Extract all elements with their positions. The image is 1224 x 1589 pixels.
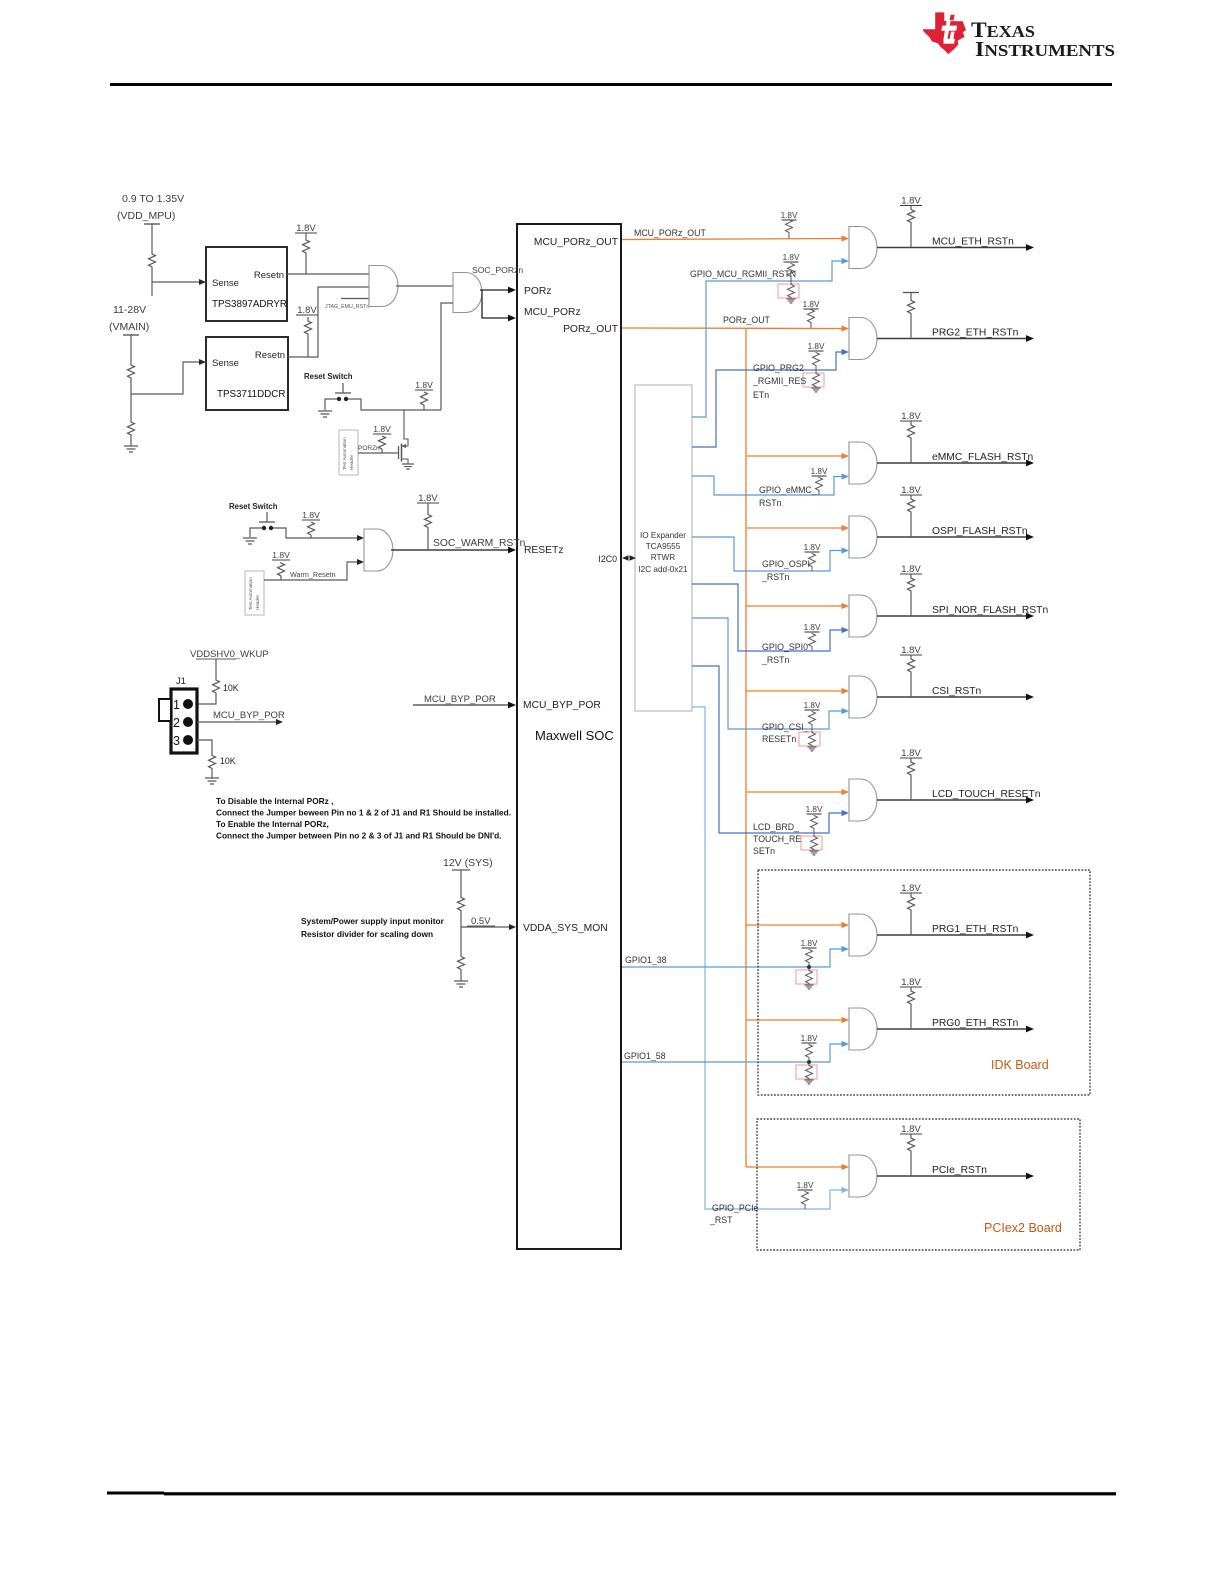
svg-text:VDDA_SYS_MON: VDDA_SYS_MON — [523, 923, 608, 934]
svg-text:TCA9555: TCA9555 — [646, 542, 681, 551]
header rule — [110, 83, 1112, 86]
wire PRG1_ETH_RSTn output — [877, 934, 1026, 936]
resistor R input U15 — [809, 711, 816, 725]
wire PORz_OUT (orange) to PRG2 gate — [622, 327, 843, 330]
svg-text:RTWR: RTWR — [651, 553, 675, 562]
resistor R pullup MCU_ETH_RSTn — [908, 207, 915, 226]
resistor DNI pulldown U11 — [803, 373, 824, 387]
wire LCD_TOUCH_RESETn output — [877, 799, 1026, 801]
svg-text:SPI_NOR_FLASH_RSTn: SPI_NOR_FLASH_RSTn — [932, 605, 1048, 616]
wire eMMC_FLASH_RSTn output — [877, 462, 1026, 464]
resistor R input U11 — [813, 352, 820, 366]
ground DNI U10 — [786, 299, 795, 303]
svg-text:MCU_PORz_OUT: MCU_PORz_OUT — [634, 228, 706, 238]
wire GPIO_MCU_RGMII_RSTN (blue) — [692, 261, 843, 417]
svg-text:CSI_RSTn: CSI_RSTn — [932, 686, 981, 697]
svg-text:MCU_BYP_POR: MCU_BYP_POR — [523, 700, 601, 711]
and-gate U19 (PCIe_RSTn) — [849, 1155, 877, 1197]
wire GPIO_OSPI_RSTn (blue) — [692, 537, 843, 571]
wire — [130, 437, 132, 446]
svg-text:PORz_OUT: PORz_OUT — [723, 315, 771, 325]
svg-text:PCIe_RSTn: PCIe_RSTn — [932, 1165, 987, 1176]
svg-text:Test Automation: Test Automation — [248, 577, 253, 610]
svg-text:TPS3897ADRYR: TPS3897ADRYR — [212, 299, 287, 310]
svg-text:GPIO1_58: GPIO1_58 — [624, 1051, 666, 1061]
svg-text:PORZn: PORZn — [358, 445, 380, 452]
resistor R_PU1 — [303, 239, 310, 254]
svg-text:1.8V: 1.8V — [272, 550, 290, 560]
svg-text:_RGMII_RES: _RGMII_RES — [752, 376, 806, 386]
resistor R_J1 10K — [209, 754, 216, 770]
and-gate U16 (LCD_TOUCH_RESETn) — [849, 779, 877, 821]
wire orange branch to PRG1 gate — [746, 924, 843, 926]
svg-text:1.8V: 1.8V — [418, 493, 438, 504]
svg-text:To Enable the Internal PORz,: To Enable the Internal PORz, — [216, 819, 329, 829]
wire LCD_BRD_TOUCH_RESETn (blue) — [692, 666, 843, 833]
wire GPIO1_38 (blue) — [622, 949, 843, 967]
wire SW1 to net — [348, 399, 441, 410]
svg-text:Resetn: Resetn — [255, 350, 285, 361]
svg-text:SETn: SETn — [753, 846, 775, 856]
svg-text:PRG1_ETH_RSTn: PRG1_ETH_RSTn — [932, 924, 1019, 935]
svg-text:0.5V: 0.5V — [471, 916, 491, 927]
svg-text:GPIO_PRG2: GPIO_PRG2 — [753, 363, 804, 373]
wire — [130, 335, 132, 363]
svg-text:Resistor divider for scaling d: Resistor divider for scaling down — [301, 929, 433, 939]
resistor R_MPU1 — [149, 253, 156, 268]
ground Q1 — [402, 464, 414, 469]
svg-text:Test Automation: Test Automation — [342, 437, 347, 470]
wire orange trunk PORz_OUT vertical — [745, 328, 747, 1167]
IO expander U4 box outline — [635, 385, 692, 711]
wire SOC_WARM_RSTn — [391, 549, 509, 551]
ground divider — [454, 981, 468, 987]
svg-text:1.8V: 1.8V — [781, 211, 798, 220]
SoC U3 box outline — [517, 224, 621, 1249]
and-gate U18 (PRG0_ETH_RSTn) — [849, 1008, 877, 1050]
resistor R pullup PRG1_ETH_RSTn — [908, 894, 915, 913]
svg-text:GPIO_OSPI: GPIO_OSPI — [762, 559, 810, 569]
svg-text:1.8V: 1.8V — [797, 1181, 814, 1190]
resistor R pullup CSI_RSTn — [908, 656, 915, 675]
svg-text:IDK Board: IDK Board — [991, 1058, 1049, 1072]
svg-text:1.8V: 1.8V — [803, 300, 820, 309]
svg-text:System/Power supply input moni: System/Power supply input monitor — [301, 916, 445, 926]
svg-text:MCU_ETH_RSTn: MCU_ETH_RSTn — [932, 237, 1014, 248]
resistor R_WKUP 10K — [213, 677, 220, 696]
supervisor U2 TPS3711DDCR — [206, 337, 288, 410]
resistor R input U17 — [806, 949, 813, 963]
svg-text:1.8V: 1.8V — [801, 1034, 818, 1043]
resistor R_VMAIN1 — [128, 363, 135, 380]
svg-text:10K: 10K — [220, 756, 236, 766]
test automation header H2 — [245, 571, 264, 615]
wire MCU_ETH_RSTn output — [877, 247, 1026, 249]
wire OSPI_FLASH_RSTn output — [877, 536, 1026, 538]
svg-text:3: 3 — [173, 734, 180, 748]
resistor R pullup OSPI_FLASH_RSTn — [908, 496, 915, 515]
PCIex2 Board box — [757, 1119, 1080, 1250]
svg-text:MCU_BYP_POR: MCU_BYP_POR — [424, 694, 496, 705]
svg-text:ETn: ETn — [753, 390, 769, 400]
resistor R input U18 — [806, 1044, 813, 1058]
wire SW2 to gate G3 — [273, 528, 357, 538]
ground J1 — [205, 778, 219, 784]
wire orange branch to eMMC gate — [746, 455, 843, 457]
wire orange branch to LCD gate — [746, 791, 843, 793]
wire MCU_BYP_POR to SOC — [413, 704, 509, 706]
ground — [124, 446, 138, 452]
svg-text:1.8V: 1.8V — [901, 564, 921, 575]
svg-text:RSTn: RSTn — [759, 498, 782, 508]
node PORZn wire — [358, 452, 397, 454]
resistor DNI pulldown U16 — [801, 836, 822, 850]
svg-text:1.8V: 1.8V — [804, 701, 821, 710]
wire to TPS3897 Sense — [152, 281, 199, 283]
svg-text:PORz: PORz — [524, 286, 551, 297]
wire orange branch to OSPI gate — [746, 527, 843, 529]
svg-text:SOC_WARM_RSTn: SOC_WARM_RSTn — [433, 538, 526, 549]
svg-text:GPIO_SPI0: GPIO_SPI0 — [762, 642, 808, 652]
wire orange branch to PCIe gate — [746, 1166, 843, 1168]
svg-text:TPS3711DDCR: TPS3711DDCR — [217, 389, 285, 400]
svg-text:1.8V: 1.8V — [302, 510, 320, 520]
wire G1 out — [396, 285, 453, 287]
svg-text:1.8V: 1.8V — [296, 223, 316, 234]
wire — [151, 224, 153, 253]
resistor R input U12 — [816, 477, 823, 491]
svg-text:MCU_PORz_OUT: MCU_PORz_OUT — [534, 237, 619, 248]
resistor DNI pulldown U15 — [799, 732, 820, 746]
svg-text:(VDD_MPU): (VDD_MPU) — [117, 210, 175, 222]
svg-text:11-28V: 11-28V — [113, 304, 146, 316]
resistor R_VMAIN2 — [130, 394, 132, 420]
svg-text:1.8V: 1.8V — [901, 883, 921, 894]
wire orange branch to SPI_NOR gate — [746, 605, 843, 607]
wire CSI_RSTn output — [877, 696, 1026, 698]
svg-text:I2C0: I2C0 — [598, 554, 617, 564]
and-gate U12 (eMMC_FLASH_RSTn) — [849, 442, 877, 484]
resistor R pullup LCD_TOUCH_RESETn — [908, 759, 915, 778]
ground DNI U11 — [811, 388, 820, 392]
and-gate U11 (PRG2_ETH_RSTn) — [849, 318, 877, 360]
transistor Q1 — [402, 410, 409, 446]
node Warm_Resetn wire — [264, 562, 357, 580]
wire GPIO1_58 (blue) — [622, 1044, 843, 1062]
ground SW1 — [318, 411, 332, 417]
svg-text:MCU_BYP_POR: MCU_BYP_POR — [213, 710, 285, 721]
svg-text:GPIO_eMMC_: GPIO_eMMC_ — [759, 485, 817, 495]
svg-text:1: 1 — [173, 698, 180, 712]
svg-text:1.8V: 1.8V — [804, 543, 821, 552]
svg-text:1.8V: 1.8V — [804, 623, 821, 632]
svg-text:SOC_PORzn: SOC_PORzn — [472, 265, 523, 275]
and-gate G3 — [364, 529, 393, 571]
wire SPI_NOR_FLASH_RSTn output — [877, 615, 1026, 617]
wire GPIO_SPI0_RSTn (blue) — [692, 584, 843, 651]
and-gate G2 — [453, 273, 482, 313]
wire GPIO_eMMC_RSTn (blue) — [692, 476, 843, 495]
svg-text:RESETz: RESETz — [524, 545, 563, 556]
wire — [151, 268, 153, 296]
supervisor U1 TPS3897ADRYR — [206, 247, 287, 321]
wire I2C0 bus — [622, 555, 629, 560]
resistor R_PU2 — [305, 320, 312, 335]
svg-text:I2C add-0x21: I2C add-0x21 — [638, 565, 688, 574]
wire SOC_PORzn to MCU_PORz — [482, 290, 509, 318]
svg-text:PRG0_ETH_RSTn: PRG0_ETH_RSTn — [932, 1018, 1019, 1029]
svg-text:1.8V: 1.8V — [901, 645, 921, 656]
footer rule — [107, 1492, 164, 1495]
resistor R pullup PRG0_ETH_RSTn — [908, 988, 915, 1007]
svg-text:MCU_PORz: MCU_PORz — [524, 307, 581, 318]
svg-text:1.8V: 1.8V — [415, 380, 433, 390]
svg-text:TOUCH_RE: TOUCH_RE — [753, 834, 801, 844]
svg-text:1.8V: 1.8V — [806, 805, 823, 814]
node JTAG_EMU_RSTn — [341, 298, 369, 300]
wire PCIe_RSTn output — [877, 1175, 1026, 1177]
pullup 1.8V PRG2_ETH_RSTn — [903, 292, 919, 294]
svg-text:1.8V: 1.8V — [901, 977, 921, 988]
resistor R_DIV2 — [458, 955, 465, 971]
wire PRG0_ETH_RSTn output — [877, 1028, 1026, 1030]
svg-text:Reset Switch: Reset Switch — [304, 372, 353, 381]
resistor R_DIV1 — [458, 896, 465, 912]
svg-text:12V (SYS): 12V (SYS) — [443, 857, 493, 869]
svg-text:1.8V: 1.8V — [811, 467, 828, 476]
wire G2 lower input from reset circuit — [441, 303, 453, 410]
svg-text:RESETn: RESETn — [762, 734, 796, 744]
svg-text:1.8V: 1.8V — [901, 485, 921, 496]
svg-text:1.8V: 1.8V — [901, 1124, 921, 1135]
svg-text:_RST: _RST — [709, 1215, 733, 1225]
svg-text:GPIO_PCIe: GPIO_PCIe — [712, 1203, 759, 1213]
svg-text:Header: Header — [255, 594, 260, 610]
svg-text:Maxwell SOC: Maxwell SOC — [535, 728, 614, 743]
resistor DNI pulldown U17 — [796, 970, 817, 984]
svg-text:Header: Header — [349, 454, 354, 470]
svg-text:1.8V: 1.8V — [373, 424, 391, 434]
resistor R input U13 — [809, 553, 816, 567]
power bar VDD_MPU — [144, 223, 160, 225]
svg-text:VDDSHV0_WKUP: VDDSHV0_WKUP — [190, 649, 269, 660]
and-gate U17 (PRG1_ETH_RSTn) — [849, 914, 877, 956]
and-gate G1 — [369, 266, 398, 307]
wire 0.5V tap — [461, 926, 509, 928]
svg-text:GPIO1_38: GPIO1_38 — [625, 955, 667, 965]
svg-text:0.9 TO 1.35V: 0.9 TO 1.35V — [122, 193, 184, 205]
ground DNI U18 — [804, 1080, 813, 1084]
svg-text:IO Expander: IO Expander — [640, 531, 686, 540]
svg-text:PCIex2 Board: PCIex2 Board — [984, 1221, 1062, 1235]
wire orange branch to PRG0 gate — [746, 1019, 843, 1021]
svg-text:Reset Switch: Reset Switch — [229, 502, 278, 511]
wire PRG2_ETH_RSTn output — [877, 338, 1026, 340]
svg-text:GPIO_CSI_: GPIO_CSI_ — [762, 722, 809, 732]
resistor R input U10 — [788, 263, 795, 277]
ground DNI U17 — [804, 985, 813, 989]
svg-text:2: 2 — [173, 716, 180, 730]
resistor R input U14 — [809, 633, 816, 647]
svg-text:_RSTn: _RSTn — [761, 655, 789, 665]
svg-text:Connect the Jumper beween Pin: Connect the Jumper beween Pin no 1 & 2 o… — [216, 808, 511, 818]
IDK Board box — [758, 870, 1090, 1095]
svg-text:1.8V: 1.8V — [901, 196, 921, 207]
svg-text:1.8V: 1.8V — [808, 342, 825, 351]
wire Resetn U2 — [288, 287, 369, 357]
wire junction to sense — [131, 362, 199, 394]
svg-text:J1: J1 — [176, 676, 186, 687]
power bar VMAIN — [123, 334, 139, 336]
svg-text:_RSTn: _RSTn — [761, 572, 789, 582]
svg-text:(VMAIN): (VMAIN) — [109, 321, 149, 333]
resistor R input U19 — [802, 1191, 809, 1205]
svg-text:PORz_OUT: PORz_OUT — [563, 324, 619, 335]
svg-text:Connect the Jumper between Pi: Connect the Jumper between Pin no 2 & 3 … — [216, 831, 502, 841]
ground DNI U16 — [809, 851, 818, 855]
wire MCU_PORz_OUT (orange) — [622, 239, 843, 240]
svg-text:1.8V: 1.8V — [901, 748, 921, 759]
svg-text:GPIO_MCU_RGMII_RSTN: GPIO_MCU_RGMII_RSTN — [690, 269, 796, 279]
wire GPIO_PCIe_RST (blue) — [692, 707, 843, 1209]
svg-text:Sense: Sense — [212, 358, 239, 369]
and-gate U14 (SPI_NOR_FLASH_RSTn) — [849, 595, 877, 637]
svg-text:LCD_TOUCH_RESETn: LCD_TOUCH_RESETn — [932, 789, 1041, 800]
and-gate U15 (CSI_RSTn) — [849, 676, 877, 718]
TI logo Texas state graphic — [923, 12, 966, 54]
wire SOC_PORzn to PORz — [480, 289, 509, 291]
wire GPIO_PRG2_RGMII_RESETn (blue) — [692, 352, 843, 447]
resistor R pullup SPI_NOR_FLASH_RSTn — [908, 575, 915, 594]
svg-text:Sense: Sense — [212, 278, 239, 289]
svg-text:1.8V: 1.8V — [901, 411, 921, 422]
resistor R pullup PCIe_RSTn — [908, 1135, 915, 1154]
resistor R_WARM — [425, 512, 432, 530]
resistor R input U16 — [811, 815, 818, 829]
svg-text:OSPI_FLASH_RSTn: OSPI_FLASH_RSTn — [932, 526, 1028, 537]
svg-text:1.8V: 1.8V — [801, 939, 818, 948]
wire Resetn to AND gate — [287, 273, 369, 275]
and-gate U10 (MCU_ETH_RSTn) — [849, 227, 877, 269]
resistor R pullup PRG2_ETH_RSTn — [908, 298, 915, 317]
svg-text:1.8V: 1.8V — [297, 305, 317, 316]
test automation header H1 — [339, 430, 358, 475]
resistor R pullup eMMC_FLASH_RSTn — [908, 422, 915, 441]
svg-text:PRG2_ETH_RSTn: PRG2_ETH_RSTn — [932, 328, 1019, 339]
ground DNI U15 — [807, 747, 816, 751]
svg-text:INSTRUMENTS: INSTRUMENTS — [975, 37, 1115, 61]
svg-text:1.8V: 1.8V — [783, 253, 800, 262]
resistor DNI pulldown U18 — [796, 1065, 817, 1079]
svg-text:LCD_BRD_: LCD_BRD_ — [753, 822, 799, 832]
svg-text:To Disable the Internal PORz ,: To Disable the Internal PORz , — [216, 796, 333, 806]
svg-text:eMMC_FLASH_RSTn: eMMC_FLASH_RSTn — [932, 452, 1034, 463]
svg-text:Resetn: Resetn — [254, 270, 284, 281]
svg-text:10K: 10K — [223, 683, 239, 693]
wire pin3 to R 10K — [197, 740, 212, 754]
ground SW2 — [243, 538, 257, 544]
and-gate U13 (OSPI_FLASH_RSTn) — [849, 516, 877, 558]
svg-text:Warm_Resetn: Warm_Resetn — [290, 570, 336, 579]
wire MCU_BYP_POR from pin2 — [197, 721, 276, 723]
resistor DNI pulldown U10 — [778, 284, 799, 298]
wire GPIO_CSI_RESETn (blue) — [692, 618, 843, 729]
wire orange branch to CSI gate — [746, 690, 843, 692]
svg-text:JTAG_EMU_RSTn: JTAG_EMU_RSTn — [325, 304, 369, 310]
